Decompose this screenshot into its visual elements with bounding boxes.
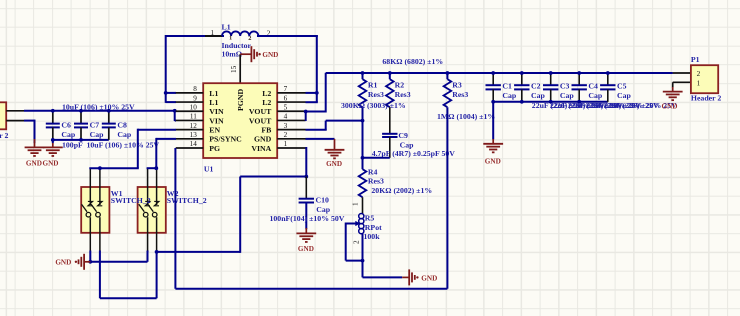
svg-text:2: 2 — [697, 70, 701, 78]
svg-text:10uF (106) ±10% 25V: 10uF (106) ±10% 25V — [87, 140, 160, 149]
wire stub pin 7 — [306, 92, 317, 94]
svg-text:C1: C1 — [502, 82, 512, 91]
wire VOUT pins join — [306, 112, 326, 122]
value label 22uF (226) +/-20% 25V (C2) — [550, 101, 623, 110]
junction R5 bottom — [361, 259, 365, 263]
svg-text:C5: C5 — [617, 82, 627, 91]
svg-text:1: 1 — [697, 79, 701, 87]
svg-text:Cap: Cap — [502, 91, 517, 100]
svg-text:GND: GND — [43, 159, 59, 167]
pin number 1 (R5) — [352, 202, 360, 206]
svg-text:13: 13 — [190, 131, 198, 139]
pin number 2 (L1 inner) — [248, 35, 251, 42]
switch W2 — [138, 168, 166, 251]
junction C2 top — [520, 71, 524, 75]
wire switch GND rail — [90, 251, 147, 262]
pin 7 (L2) — [277, 92, 305, 94]
label C7 — [90, 120, 100, 129]
pin 14 (PG) — [176, 147, 204, 149]
label R2 — [395, 80, 405, 89]
ground GND (C10) — [296, 228, 316, 242]
junction C3 top — [549, 71, 553, 75]
wire VIN drop to pin 11 — [174, 111, 176, 121]
pin name PG — [209, 144, 220, 153]
svg-text:GND: GND — [26, 159, 42, 167]
label R5 — [365, 214, 375, 223]
connector P2 pin 1 — [6, 110, 24, 112]
capacitor C4 — [572, 73, 587, 102]
junction VINA/C10 — [304, 175, 308, 179]
svg-text:Cap: Cap — [117, 130, 132, 139]
svg-text:10mΩ: 10mΩ — [222, 49, 243, 58]
pin number 9 — [193, 94, 197, 102]
wire VINA branch horizontal — [157, 177, 241, 253]
svg-text:Cap: Cap — [617, 91, 632, 100]
label W1 — [111, 189, 123, 198]
junction VOUT pin5 — [304, 110, 308, 114]
junction C5 top — [606, 71, 610, 75]
label GND (right) — [43, 159, 59, 167]
ground GND (PGND) — [240, 46, 261, 62]
value label 100nF(104) +/-10% 50V — [270, 214, 345, 223]
pin 13 (PS/SYNC) — [176, 138, 204, 140]
pin number 2 (L1) — [267, 30, 271, 38]
wire C9 bottom to R4 chain — [362, 157, 390, 159]
svg-text:20KΩ (2002) ±1%: 20KΩ (2002) ±1% — [371, 186, 432, 195]
value label 10uF (106) +/-10% 25V (C8) — [87, 140, 160, 149]
label GND (PGND) — [262, 51, 278, 59]
pin name L2 — [262, 98, 271, 107]
junction pin8 — [164, 91, 168, 95]
svg-text:Cap: Cap — [61, 130, 76, 139]
label C7 Cap — [90, 130, 105, 139]
svg-text:14: 14 — [190, 140, 198, 148]
svg-text:15: 15 — [230, 65, 238, 73]
junction C7 bottom — [79, 138, 83, 142]
svg-text:L1: L1 — [222, 22, 231, 31]
label GND (C10) — [298, 245, 314, 253]
label GND (P1 pin1) — [662, 102, 678, 110]
junction C4 bottom — [577, 100, 581, 104]
label C2 — [531, 82, 541, 91]
potentiometer R5 — [359, 214, 364, 261]
pin number 1 (L1) — [211, 29, 215, 37]
wire C6 bottom drop — [52, 140, 54, 143]
value label 22uF (226) +/-20% 25V (C1) — [532, 101, 605, 110]
pin 1 (VINA) — [277, 147, 305, 149]
wire VIN rail — [24, 110, 176, 112]
svg-text:R5: R5 — [365, 214, 375, 223]
capacitor C5 — [600, 73, 615, 102]
wire W1 right pin down — [99, 251, 101, 299]
connector P1 (Header 2) — [691, 65, 718, 93]
svg-text:GND: GND — [662, 102, 678, 110]
svg-text:U1: U1 — [204, 164, 214, 173]
svg-text:VINA: VINA — [251, 144, 271, 153]
wire R5 wiper — [346, 221, 361, 226]
wire W1 left pin to GND rail — [89, 251, 91, 262]
pin name VIN — [209, 116, 224, 125]
svg-text:Res3: Res3 — [368, 176, 384, 185]
wire output caps bottom rail — [493, 101, 608, 103]
label C10 — [316, 196, 330, 205]
svg-text:Res3: Res3 — [395, 90, 411, 99]
wire stub pin 8 — [166, 92, 176, 94]
capacitor C1 — [486, 73, 501, 102]
label C3 Cap — [560, 91, 575, 100]
label GND (left) — [26, 159, 42, 167]
wire inductor to L2 pins — [257, 35, 318, 102]
svg-text:GND: GND — [55, 259, 71, 267]
wire VIN stub pin 11 — [175, 120, 176, 122]
label R2 Res3 — [395, 90, 411, 99]
svg-text:C10: C10 — [316, 196, 330, 205]
pin 11 (VIN) — [176, 119, 204, 121]
wire FB rail — [326, 120, 363, 122]
pin 15 PGND line — [239, 54, 241, 83]
ground GND (switches) — [75, 254, 91, 270]
svg-text:Cap: Cap — [560, 91, 575, 100]
wire caps bottom rail — [53, 139, 109, 141]
value label 300KOhm (3003) +/-1% (R2) — [341, 101, 406, 110]
wire R5 wiper loop — [346, 223, 363, 261]
inductor L1 — [205, 31, 268, 36]
capacitor C8 — [102, 111, 116, 140]
junction R3 top — [446, 71, 450, 75]
pin number 10 — [190, 103, 198, 111]
svg-text:GND: GND — [421, 274, 437, 282]
label C4 Cap — [588, 91, 603, 100]
junction W2 right pin bottom — [155, 250, 159, 254]
pin number 2 (P1) — [697, 70, 701, 78]
label R1 Res3 — [368, 90, 384, 99]
label R5 RPot — [365, 223, 382, 232]
value label 22uF (226) +/-20% 25V (C3) — [568, 101, 641, 110]
svg-text:Cap: Cap — [588, 91, 603, 100]
junction switch GND — [88, 260, 92, 264]
svg-text:VOUT: VOUT — [249, 116, 272, 125]
pin 10 (VIN) — [176, 110, 204, 112]
wire VINA branch to junction — [240, 176, 306, 178]
svg-text:VOUT: VOUT — [249, 107, 272, 116]
capacitor C2 — [514, 73, 529, 102]
svg-text:GND: GND — [485, 157, 501, 165]
connector P1 pin 1 — [673, 82, 691, 87]
capacitor C3 — [543, 73, 558, 102]
capacitor C9 — [382, 134, 397, 158]
svg-text:GND: GND — [254, 135, 272, 144]
capacitor C7 — [74, 111, 88, 140]
wire rail to P1 — [608, 72, 673, 74]
svg-text:1: 1 — [211, 29, 215, 37]
svg-text:P1: P1 — [691, 55, 700, 64]
junction C1 top — [491, 71, 495, 75]
junction C8 top — [107, 109, 111, 113]
svg-text:8: 8 — [193, 85, 197, 93]
pin 12 (EN) — [176, 129, 204, 131]
svg-text:10uF (106) ±10% 25V: 10uF (106) ±10% 25V — [62, 102, 135, 111]
svg-text:C6: C6 — [61, 120, 71, 129]
svg-text:PG: PG — [209, 144, 220, 153]
wire VOUT riser — [325, 73, 327, 113]
junction W1 right pin top — [98, 166, 102, 170]
pin 9 (L1) — [176, 101, 204, 103]
resistor R2 — [386, 73, 394, 134]
junction C4 top — [577, 71, 581, 75]
junction C6 top — [51, 109, 55, 113]
label P1 — [691, 55, 700, 64]
svg-text:RPot: RPot — [365, 223, 382, 232]
svg-text:Cap: Cap — [90, 130, 105, 139]
pin name VOUT — [249, 107, 272, 116]
junction pin7 — [315, 91, 319, 95]
wire L1-pin8/9 to inductor — [166, 35, 224, 103]
pin name PGND (vertical) — [236, 89, 245, 111]
wire R3 bottom riser — [446, 107, 448, 289]
value label 10uF (106) +/-10% 25V (C7) — [62, 102, 135, 111]
svg-text:2: 2 — [284, 131, 288, 139]
pin number 5 — [284, 103, 288, 111]
label C9 Cap — [400, 141, 415, 150]
pin name EN — [209, 126, 220, 135]
svg-text:Header 2: Header 2 — [0, 131, 8, 140]
label R4 Res3 — [368, 176, 384, 185]
svg-text:R3: R3 — [452, 80, 462, 89]
svg-text:GND: GND — [262, 51, 278, 59]
wire GND pin2 — [306, 138, 335, 140]
value label 4.7pF (4R7) +/-0.25pF 50V (C9) — [372, 149, 456, 158]
wire W2 left pin stub — [147, 251, 149, 252]
pin 4 (VOUT) — [277, 119, 305, 121]
pin number 12 — [190, 122, 198, 130]
label C8 — [117, 120, 127, 129]
wire output GND drop — [492, 102, 494, 140]
label C5 — [617, 82, 627, 91]
svg-text:Res3: Res3 — [368, 90, 384, 99]
svg-text:VIN: VIN — [209, 107, 224, 116]
label W2 SWITCH_2 — [167, 196, 207, 205]
switch W1 — [81, 168, 109, 251]
pin number 11 — [190, 113, 197, 121]
svg-text:11: 11 — [190, 113, 197, 121]
svg-text:5: 5 — [284, 103, 288, 111]
svg-text:12: 12 — [190, 122, 198, 130]
pin number 1 (L1 inner) — [229, 35, 232, 42]
svg-text:C2: C2 — [531, 82, 541, 91]
pin number 2 (R5) — [353, 240, 361, 244]
pin 5 (VOUT) — [277, 110, 305, 112]
svg-text:L2: L2 — [262, 98, 271, 107]
value label 100pF (C6) — [62, 140, 83, 149]
svg-text:C3: C3 — [560, 82, 570, 91]
wire P2 pin2 to GND — [24, 120, 35, 144]
label C1 Cap — [502, 91, 517, 100]
svg-text:Res3: Res3 — [452, 90, 468, 99]
junction R4 top — [361, 156, 365, 160]
label C4 — [588, 82, 598, 91]
junction FB/R1 — [361, 119, 365, 123]
svg-text:1: 1 — [352, 202, 360, 206]
pin number 1 — [284, 140, 288, 148]
label GND (R5) — [421, 274, 437, 282]
connector P2 pin 2 — [6, 120, 24, 122]
label U1 — [204, 164, 214, 173]
pin number 6 — [284, 94, 288, 102]
svg-text:100k: 100k — [364, 232, 381, 241]
ground GND (U1 pin2) — [325, 139, 345, 158]
label C6 — [61, 120, 71, 129]
pin number 1 (P1) — [697, 79, 701, 87]
svg-text:GND: GND — [326, 160, 342, 168]
ground GND (output caps) — [483, 139, 503, 152]
pin name VINA — [251, 144, 271, 153]
ground GND (input caps) — [43, 143, 63, 156]
value label 20KOhm (2002) +/-1% (R4) — [371, 186, 432, 195]
wire VINA pin drop — [305, 147, 307, 177]
svg-text:VIN: VIN — [209, 116, 224, 125]
label R3 Res3 — [452, 90, 468, 99]
value label 100k (R5) — [364, 232, 381, 241]
svg-text:Cap: Cap — [531, 91, 546, 100]
pin name L2 — [262, 89, 271, 98]
svg-text:C4: C4 — [588, 82, 598, 91]
label GND (U1 pin2) — [326, 160, 342, 168]
junction C1 bottom — [491, 100, 495, 104]
wire R5 to GND — [363, 261, 403, 278]
connector P1 pin 2 — [673, 72, 691, 74]
ground GND (P2 pin2) — [25, 139, 45, 156]
svg-text:PGND: PGND — [236, 89, 245, 111]
wire VOUT rail — [326, 72, 673, 74]
label GND (output caps) — [485, 157, 501, 165]
pin 2 (GND) — [277, 138, 305, 140]
label GND (switches) — [55, 259, 71, 267]
pin 3 (FB) — [277, 129, 305, 131]
wire W2 right pin stub — [156, 251, 158, 252]
pin name VOUT — [249, 116, 272, 125]
svg-text:2: 2 — [353, 240, 361, 244]
label C10 Cap — [316, 205, 331, 214]
wire EN to switch W1 — [89, 129, 176, 169]
svg-text:L1: L1 — [209, 98, 218, 107]
wire PS/SYNC to switch W2 — [147, 138, 176, 168]
svg-text:L1: L1 — [209, 89, 218, 98]
junction C3 bottom — [549, 100, 553, 104]
pin name GND — [254, 135, 272, 144]
junction R1 top — [361, 71, 365, 75]
pin number 14 — [190, 140, 198, 148]
pin name L1 — [209, 98, 218, 107]
resistor R3 — [444, 73, 452, 107]
pin number 4 — [284, 113, 288, 121]
wire switch bottom link — [100, 252, 157, 298]
pin 8 (L1) — [176, 92, 204, 94]
value label 10mOhm — [222, 49, 243, 58]
svg-text:C8: C8 — [117, 120, 127, 129]
label C3 — [560, 82, 570, 91]
junction R2 top — [388, 71, 392, 75]
op-amp U1 body (regulator) — [203, 83, 277, 158]
label C6 Cap — [61, 130, 76, 139]
svg-text:6: 6 — [284, 94, 288, 102]
svg-text:300KΩ (3003) ±1%: 300KΩ (3003) ±1% — [341, 101, 406, 110]
capacitor C10 — [299, 177, 314, 230]
label Inductor — [222, 41, 252, 50]
value label 68KOhm (6802) +/-1% (R1) — [382, 57, 443, 66]
label C8 Cap — [117, 130, 132, 139]
svg-text:EN: EN — [209, 126, 220, 135]
ground GND (P1 pin1) — [663, 87, 683, 100]
resistor R4 — [359, 121, 367, 214]
label C2 Cap — [531, 91, 546, 100]
pin number 13 — [190, 131, 198, 139]
svg-text:68KΩ (6802) ±1%: 68KΩ (6802) ±1% — [382, 57, 443, 66]
svg-text:1: 1 — [284, 140, 288, 148]
label W2 — [167, 189, 179, 198]
svg-text:R1: R1 — [368, 80, 378, 89]
svg-text:SWITCH_2: SWITCH_2 — [167, 196, 207, 205]
svg-text:100nF(104) ±10% 50V: 100nF(104) ±10% 50V — [270, 214, 345, 223]
svg-text:L2: L2 — [262, 89, 271, 98]
svg-text:100pF: 100pF — [62, 140, 83, 149]
svg-text:C9: C9 — [398, 131, 408, 140]
svg-text:Header 2: Header 2 — [691, 94, 721, 103]
pin number 2 — [284, 131, 288, 139]
svg-text:3: 3 — [284, 122, 288, 130]
junction C2 bottom — [520, 100, 524, 104]
svg-text:7: 7 — [284, 85, 288, 93]
svg-text:9: 9 — [193, 94, 197, 102]
wire PG down — [174, 148, 176, 289]
pin name FB — [261, 126, 271, 135]
pin name L1 — [209, 89, 218, 98]
svg-text:FB: FB — [261, 126, 271, 135]
label Header 2 (P1) — [691, 94, 721, 103]
wire FB pin3 — [306, 121, 327, 130]
junction C6 bottom — [51, 138, 55, 142]
svg-text:C7: C7 — [90, 120, 100, 129]
label W1 SWITCH_2 — [111, 196, 151, 205]
label C5 Cap — [617, 91, 632, 100]
junction W2 right pin top — [154, 166, 158, 170]
wire PG bottom rail — [175, 288, 447, 290]
capacitor C6 — [46, 111, 60, 140]
pin number 8 — [193, 85, 197, 93]
pin number 15 — [230, 65, 238, 73]
value label 1MOhm (1004) +/-1% (R3) — [437, 112, 495, 121]
label R3 — [452, 80, 462, 89]
value label 22uF (226) +/-20% 25V (C5) — [604, 101, 677, 110]
svg-text:1MΩ (1004) ±1%: 1MΩ (1004) ±1% — [437, 112, 495, 121]
svg-text:R2: R2 — [395, 80, 405, 89]
resistor R1 — [359, 73, 367, 122]
pin number 7 — [284, 85, 288, 93]
label R4 — [368, 167, 378, 176]
label C9 — [398, 131, 408, 140]
label C1 — [502, 82, 512, 91]
pin number 3 — [284, 122, 288, 130]
junction C7 top — [79, 109, 83, 113]
svg-text:4: 4 — [284, 113, 288, 121]
pin name PS/SYNC — [209, 135, 242, 144]
pin name VIN — [209, 107, 224, 116]
label R1 — [368, 80, 378, 89]
label L1 (inductor) — [222, 22, 231, 31]
value label 22uF (226) +/-20% 25V (C4) — [586, 101, 659, 110]
junction VIN/pin10 — [173, 109, 177, 113]
pin 6 (L2) — [277, 101, 305, 103]
svg-text:SWITCH_2: SWITCH_2 — [111, 196, 151, 205]
